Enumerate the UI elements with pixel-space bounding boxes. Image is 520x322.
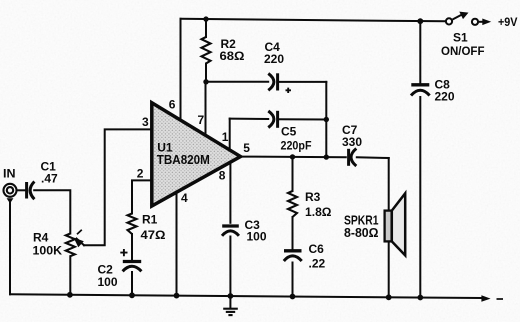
- svg-text:8: 8: [219, 169, 226, 183]
- svg-text:S1: S1: [453, 31, 468, 45]
- svg-text:.47: .47: [41, 172, 58, 186]
- svg-text:C6: C6: [309, 242, 325, 256]
- svg-text:100: 100: [98, 275, 118, 289]
- svg-text:R3: R3: [305, 190, 321, 204]
- svg-text:330: 330: [342, 135, 362, 149]
- svg-text:220: 220: [435, 90, 455, 104]
- svg-text:5: 5: [243, 141, 250, 155]
- svg-text:R1: R1: [142, 213, 158, 227]
- svg-text:+9V: +9V: [498, 15, 518, 29]
- svg-text:8-80Ω: 8-80Ω: [344, 226, 379, 240]
- svg-text:4: 4: [181, 191, 188, 205]
- svg-text:3: 3: [142, 115, 149, 129]
- svg-text:ON/OFF: ON/OFF: [441, 44, 485, 58]
- svg-text:68Ω: 68Ω: [220, 49, 245, 63]
- svg-text:220: 220: [264, 52, 284, 66]
- svg-text:1: 1: [222, 130, 229, 144]
- svg-text:2: 2: [137, 166, 144, 180]
- svg-text:100: 100: [247, 230, 267, 244]
- svg-text:.22: .22: [309, 257, 326, 271]
- svg-text:1.8Ω: 1.8Ω: [305, 205, 332, 219]
- svg-text:6: 6: [169, 98, 176, 112]
- svg-text:100K: 100K: [33, 244, 63, 258]
- svg-text:IN: IN: [3, 167, 16, 181]
- svg-text:TBA820M: TBA820M: [157, 153, 210, 167]
- svg-text:47Ω: 47Ω: [141, 228, 166, 242]
- svg-text:R4: R4: [33, 231, 49, 245]
- svg-text:220pF: 220pF: [281, 139, 312, 153]
- svg-text:7: 7: [198, 113, 205, 127]
- svg-text:C5: C5: [281, 125, 297, 139]
